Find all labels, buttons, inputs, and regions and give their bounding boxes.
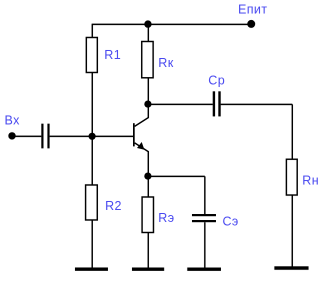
resistor Rn xyxy=(286,159,319,195)
wire Ce top lead xyxy=(204,176,206,214)
wire Re bottom lead xyxy=(147,232,149,268)
wire right branch down to Rn xyxy=(291,104,293,159)
wire top supply rail xyxy=(92,23,252,25)
node supply terminal xyxy=(247,20,255,28)
ground under R2 xyxy=(75,267,108,270)
ground under Re xyxy=(132,267,164,270)
wire R1 top lead xyxy=(91,24,93,37)
svg-text:Епит: Епит xyxy=(238,2,267,16)
wire R1 bottom lead to base junction and down to R2 xyxy=(91,72,93,185)
resistor Rk xyxy=(142,41,174,77)
wire input to coupling cap xyxy=(12,135,41,137)
wire collector node to Cp xyxy=(148,103,212,105)
wire base xyxy=(50,135,134,137)
resistor R1 xyxy=(86,37,121,72)
node emitter junction xyxy=(144,172,151,179)
wire R2 bottom lead xyxy=(91,220,93,268)
node top rail junction xyxy=(144,20,151,27)
wire emitter node to Ce corner xyxy=(148,175,205,177)
ground under Ce xyxy=(187,268,221,271)
wire Ce bottom lead xyxy=(204,222,206,268)
capacitor Ce xyxy=(192,214,239,229)
svg-text:Вх: Вх xyxy=(5,113,21,127)
svg-text:Rэ: Rэ xyxy=(158,211,174,225)
capacitor input coupling xyxy=(41,124,49,149)
svg-text:Rн: Rн xyxy=(302,174,319,188)
resistor R2 xyxy=(86,185,122,220)
ground under Rn xyxy=(274,266,308,269)
wire Cp to right corner xyxy=(221,103,293,105)
svg-text:Сэ: Сэ xyxy=(222,215,238,229)
wire Rn bottom lead xyxy=(291,195,293,267)
svg-text:Ср: Ср xyxy=(208,74,225,88)
node base junction xyxy=(89,133,96,140)
wire Rk bottom lead to collector node xyxy=(147,78,149,104)
svg-text:R1: R1 xyxy=(104,48,121,62)
node input terminal xyxy=(8,132,15,139)
resistor Re xyxy=(142,197,174,233)
wire Re top lead xyxy=(147,176,149,197)
capacitor Cp xyxy=(208,74,225,117)
transistor VT1 xyxy=(133,104,148,176)
svg-text:Rк: Rк xyxy=(158,56,173,70)
wire Rk top lead xyxy=(147,24,149,41)
svg-text:R2: R2 xyxy=(105,199,122,213)
node collector junction xyxy=(144,100,151,107)
